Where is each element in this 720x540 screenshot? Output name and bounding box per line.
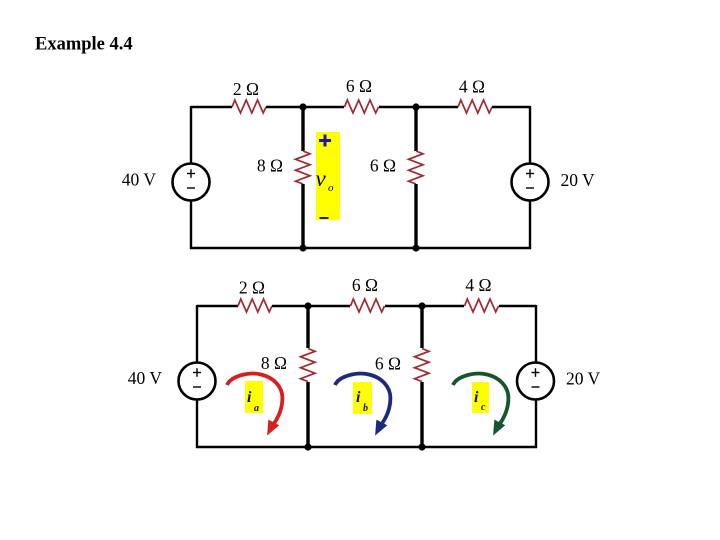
resistor R8 4Ω [465, 299, 499, 312]
node D (bottom-right junction) [412, 244, 419, 251]
ic highlight box [472, 382, 489, 413]
resistor R2 6Ω (top) [345, 100, 379, 113]
vo plus sign [319, 135, 331, 147]
vo minus sign [320, 217, 329, 219]
node F (junction 6Ω/6Ω top) [418, 302, 425, 309]
node C (bottom-left junction) [299, 244, 306, 251]
node A (top-left junction) [299, 103, 306, 110]
ia highlight box [245, 381, 263, 413]
svg-text:i: i [247, 389, 252, 406]
voltage source V1 40V [173, 164, 210, 201]
svg-text:40 V: 40 V [128, 368, 163, 388]
resistor R10 6Ω (vertical) [415, 349, 430, 382]
svg-text:4 Ω: 4 Ω [465, 275, 491, 295]
svg-text:2 Ω: 2 Ω [233, 79, 259, 99]
wire top-left segment [191, 106, 232, 108]
resistor R3 4Ω (top) [458, 100, 492, 113]
wire right rail lower (bottom circuit) [535, 400, 537, 449]
node H (bottom-right junction) [418, 443, 425, 450]
ib highlight box [353, 382, 372, 414]
svg-text:20 V: 20 V [566, 369, 601, 389]
wire bottom (top circuit) [190, 247, 531, 249]
node B (top-right junction) [412, 103, 419, 110]
svg-text:6 Ω: 6 Ω [346, 76, 372, 96]
wire left rail upper (bottom circuit) [196, 305, 198, 363]
svg-text:6 Ω: 6 Ω [375, 354, 401, 374]
wire top mid-right (bottom circuit) [385, 305, 464, 307]
wire top mid-right [379, 106, 458, 108]
svg-text:4 Ω: 4 Ω [459, 77, 485, 97]
mesh current ia arrow (red) [227, 374, 282, 435]
svg-text:20 V: 20 V [561, 170, 596, 190]
svg-text:i: i [474, 389, 479, 406]
resistor R9 8Ω (vertical) [301, 349, 316, 382]
wire right rail upper [529, 106, 531, 164]
svg-text:b: b [363, 403, 368, 414]
wire node2 vertical lower (bottom circuit) [420, 382, 423, 447]
resistor R5 6Ω (vertical) [409, 151, 424, 184]
wire right rail lower [529, 201, 531, 250]
svg-text:v: v [316, 166, 327, 191]
node E (junction 2Ω/8Ω top) [304, 302, 311, 309]
wire top-right segment (bottom circuit) [499, 305, 536, 307]
wire left rail lower (bottom circuit) [196, 400, 198, 449]
svg-text:c: c [481, 402, 486, 413]
svg-text:o: o [328, 182, 334, 194]
svg-text:8 Ω: 8 Ω [257, 156, 283, 176]
wire top-left segment (bottom circuit) [197, 305, 238, 307]
wire top-right segment [492, 106, 530, 108]
voltage source V2 20V [512, 164, 549, 201]
mesh current ic arrow (green) [453, 374, 508, 435]
node G (bottom-left junction) [304, 443, 311, 450]
mesh current ib arrow (blue) [335, 374, 390, 435]
voltage source V4 20V [517, 363, 554, 400]
wire node1 vertical lower (bottom circuit) [306, 382, 309, 447]
resistor R4 8Ω (vertical) [296, 151, 311, 184]
wire node2 vertical lower [414, 184, 417, 248]
svg-text:Example 4.4: Example 4.4 [35, 35, 133, 55]
wire left rail lower [190, 201, 192, 250]
wire left rail upper [190, 106, 192, 164]
svg-text:i: i [356, 389, 361, 406]
wire right rail upper (bottom circuit) [535, 305, 537, 363]
resistor R7 6Ω [351, 299, 385, 312]
svg-text:2 Ω: 2 Ω [239, 278, 265, 298]
wire node2 vertical upper (bottom circuit) [420, 306, 423, 348]
svg-text:8 Ω: 8 Ω [261, 353, 287, 373]
resistor R6 2Ω [238, 299, 272, 312]
wire node1 vertical upper (bottom circuit) [306, 306, 309, 348]
svg-text:a: a [254, 403, 259, 414]
voltage source V3 40V [179, 363, 216, 400]
wire top mid-left [266, 106, 344, 108]
svg-text:6 Ω: 6 Ω [370, 156, 396, 176]
wire node1 vertical upper [301, 107, 304, 151]
svg-text:6 Ω: 6 Ω [352, 275, 378, 295]
wire node2 vertical upper [414, 107, 417, 151]
resistor R1 2Ω (top) [232, 100, 266, 113]
svg-text:40 V: 40 V [122, 170, 157, 190]
wire top mid-left (bottom circuit) [272, 305, 350, 307]
wire node1 vertical lower [301, 184, 304, 248]
vo highlight box [316, 132, 340, 220]
wire bottom (bottom circuit) [196, 446, 537, 448]
